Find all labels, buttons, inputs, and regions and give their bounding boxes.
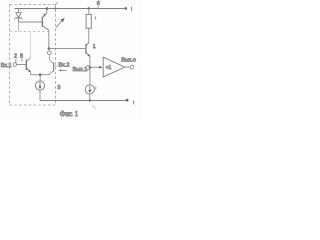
resistor R top lead <box>88 9 90 15</box>
transistor T4 base bar <box>85 44 87 54</box>
current source CS1 arrowhead <box>39 86 42 89</box>
terminal circle Vx2 <box>48 51 52 55</box>
transistor T3 base bar <box>53 62 55 71</box>
transistor Q1 emitter diagonal <box>43 13 47 17</box>
wire to op-amp input <box>90 66 100 68</box>
svg-text:+1: +1 <box>106 65 112 71</box>
pin tick top right <box>131 7 133 11</box>
svg-text:Вх.1: Вх.1 <box>1 63 12 69</box>
wire Vx1 to T2 base <box>17 64 26 66</box>
wire common emitter rail <box>31 74 50 76</box>
junction dot node A <box>48 47 51 50</box>
stray scan mark <box>92 106 96 109</box>
wire CS2 to bottom rail <box>89 94 91 101</box>
resistor R body <box>86 14 91 28</box>
svg-text:6: 6 <box>97 1 100 7</box>
transistor Q1 collector diagonal <box>43 26 49 30</box>
wire Q1 collector column <box>48 30 50 48</box>
transistor Q1 emitter stub <box>46 9 48 14</box>
diode D bar serif right <box>22 18 23 20</box>
svg-text:Вх.2: Вх.2 <box>58 62 69 68</box>
current source CS2 arrow shaft <box>89 86 91 92</box>
junction dot resistor on rail <box>88 7 90 9</box>
terminal circle Vx1 <box>13 63 17 67</box>
leader arrow to Q1 <box>56 18 64 27</box>
op-amp U1 triangle <box>103 57 125 77</box>
diode D cathode bar <box>15 17 21 19</box>
transistor Q1 emitter arrow <box>43 13 45 17</box>
svg-text:3: 3 <box>57 85 60 91</box>
current source CS2 circle <box>85 85 94 94</box>
wire T3 collector stub <box>49 55 51 60</box>
terminal dot top right <box>124 7 127 10</box>
transistor T3 emitter diagonal <box>49 71 53 75</box>
transistor T2 emitter arrow <box>28 70 31 73</box>
wire diode to Q1 base <box>19 21 43 23</box>
transistor T2 base bar <box>25 60 27 71</box>
svg-text:Вых.о: Вых.о <box>121 57 136 63</box>
wire top rail <box>15 8 125 10</box>
dashed box top edge <box>10 4 56 6</box>
wire T2 emitter corner <box>30 72 32 75</box>
leader tick of 2 <box>15 59 17 63</box>
diode D anode lead <box>18 9 20 13</box>
transistor T2 collector diagonal <box>27 57 31 61</box>
transistor T2 emitter diagonal <box>27 68 31 72</box>
wire CS1 to bottom rail <box>39 90 41 100</box>
wire tail to CS1 <box>39 75 41 82</box>
transistor Q1 base bar <box>41 17 43 27</box>
label tick near CS2 <box>95 86 97 89</box>
label tick near resistor <box>95 16 97 19</box>
leader arrowhead <box>60 18 64 22</box>
wire bottom rail <box>40 100 126 102</box>
transistor T4 emitter arrow <box>87 54 90 57</box>
leader tick of 6b <box>21 58 23 61</box>
junction dot Q1 emitter on rail <box>46 7 49 10</box>
wire T2 collector faint column <box>30 33 32 57</box>
junction dot rail at box edge <box>54 7 56 9</box>
wire diode column down <box>18 22 20 31</box>
leader arrow of Vx.2 <box>60 69 67 71</box>
svg-text:Вых.1: Вых.1 <box>73 67 88 73</box>
wire node A to T4 base <box>49 48 86 50</box>
junction dot Vyx1 node <box>89 66 91 68</box>
transistor T4 emitter diagonal <box>86 53 90 57</box>
leader for label 6 <box>97 6 100 9</box>
current source CS1 circle <box>35 81 44 90</box>
diode D triangle <box>16 13 21 18</box>
svg-text:Фиг. 1: Фиг. 1 <box>60 110 79 118</box>
junction dot CS2 on rail <box>89 99 91 101</box>
dashed box bottom edge <box>10 104 56 106</box>
junction dot tail node <box>39 73 42 76</box>
current source CS1 arrow shaft <box>39 82 41 88</box>
resistor R bottom lead <box>88 28 90 42</box>
terminal dot bottom right <box>126 99 129 102</box>
diode D bar serif left <box>14 18 15 20</box>
svg-text:2: 2 <box>14 53 17 59</box>
current source CS2 arrowhead <box>88 90 91 93</box>
wire T4 emitter column <box>89 56 91 85</box>
dashed box left edge <box>9 5 11 106</box>
leader arrowhead of Vx.2 <box>58 69 61 71</box>
terminal circle output <box>130 65 134 69</box>
dashed box right edge <box>55 5 57 106</box>
transistor T3 collector diagonal <box>50 60 54 63</box>
transistor T4 collector diagonal <box>86 43 89 46</box>
inner dashed divider <box>10 31 49 33</box>
pin tick bottom right <box>133 101 135 105</box>
svg-text:1: 1 <box>93 44 96 50</box>
transistor T3 base stub <box>54 65 57 67</box>
wire op-amp output <box>125 66 130 68</box>
diode D cathode lead <box>18 18 20 22</box>
dashed box corner tick <box>56 2 59 4</box>
terminal circle Vyx1 <box>86 66 90 70</box>
op-amp input arrowhead <box>99 66 102 69</box>
